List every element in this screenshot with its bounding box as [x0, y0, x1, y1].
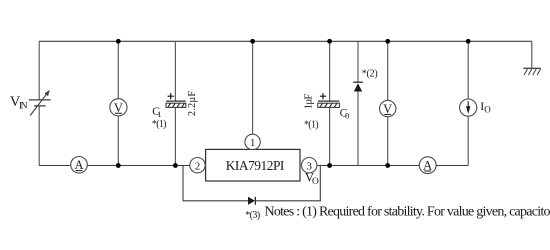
capacitor C0 polarity +: [320, 93, 326, 99]
junction top rail at pin1: [250, 39, 255, 44]
capacitor C1 branch wire upper: [174, 41, 176, 101]
wire bottom rail left (to ammeter A1): [39, 165, 71, 167]
svg-text:1µF: 1µF: [304, 93, 315, 109]
svg-text:*(3): *(3): [245, 210, 260, 221]
capacitor C0 branch wire upper: [329, 41, 331, 101]
ammeter A1: [71, 157, 88, 174]
pin 1 wire: [252, 41, 254, 134]
junction top rail at V2: [385, 39, 390, 44]
junction output rail at C0: [327, 163, 332, 168]
junction bottom rail at C1: [173, 163, 178, 168]
junction output rail at V2: [385, 163, 390, 168]
capacitor C0 branch wire lower: [329, 107, 331, 165]
svg-text:Notes : (1) Required for stabi: Notes : (1) Required for stability. For …: [265, 204, 550, 219]
svg-text:*(1): *(1): [304, 119, 319, 130]
ground: [523, 41, 541, 75]
diode D2: [248, 197, 255, 205]
capacitor C1 polarity +: [168, 93, 174, 99]
pin 2: [190, 158, 205, 173]
current source IO branch wire lower: [467, 116, 469, 165]
svg-text:KIA7912PI: KIA7912PI: [226, 158, 285, 173]
svg-text:1: 1: [250, 137, 256, 149]
svg-text:A: A: [74, 158, 83, 172]
voltmeter V1 branch wire lower: [117, 116, 119, 166]
junction top rail at C0: [327, 39, 332, 44]
wire left vertical lower: [38, 106, 40, 166]
wire bypass right section: [255, 166, 320, 201]
diode D1 branch wire lower: [357, 92, 359, 166]
junction bottom rail at V1: [116, 163, 121, 168]
junction top rail at V1: [116, 39, 121, 44]
voltmeter V2 branch wire lower: [387, 117, 389, 166]
current source IO: [460, 99, 477, 116]
wire bypass left vertical: [183, 166, 248, 201]
ammeter A2: [419, 157, 436, 174]
voltmeter V1 branch wire upper: [117, 41, 119, 98]
svg-text:*(2): *(2): [362, 69, 378, 80]
wire bottom rail A1 to pin2: [87, 165, 190, 167]
source VIN variability arrow: [30, 90, 50, 116]
diode D1: [353, 82, 363, 91]
wire left vertical upper: [38, 41, 40, 100]
pin 3: [302, 158, 317, 173]
wire bottom rail A2 to IO branch: [436, 165, 468, 167]
svg-text:*(1): *(1): [152, 119, 167, 130]
IC U1 KIA7912PI box: [206, 149, 300, 181]
capacitor C0: [318, 101, 340, 107]
voltmeter V1: [110, 99, 127, 116]
capacitor C1: [166, 101, 186, 107]
wire output rail pin3 to IO corner: [317, 165, 419, 167]
capacitor C1 branch wire lower: [174, 107, 176, 165]
junction top rail at IO: [466, 39, 471, 44]
pin 1: [245, 134, 260, 149]
diode D1 branch wire upper: [357, 41, 359, 82]
svg-text:2.2µF: 2.2µF: [187, 91, 198, 116]
source VIN battery plates: [29, 100, 51, 106]
wire top rail: [39, 40, 532, 42]
voltmeter V2 branch wire upper: [387, 41, 389, 100]
current source IO branch wire upper: [467, 41, 469, 99]
svg-text:2: 2: [195, 160, 201, 172]
voltmeter V2: [380, 100, 396, 116]
